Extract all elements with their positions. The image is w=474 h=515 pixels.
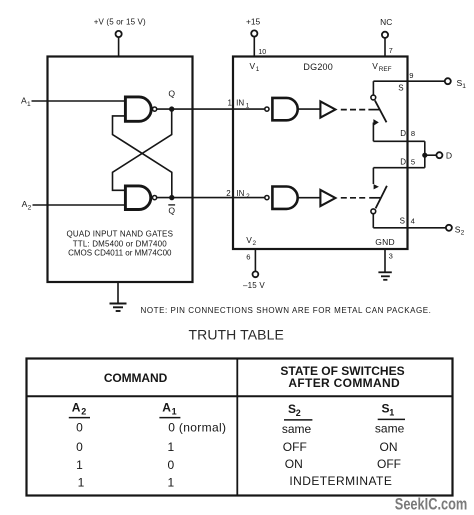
- svg-text:3: 3: [389, 252, 393, 261]
- wire S pin9 to S1: [373, 80, 444, 82]
- wire pin7 stem: [384, 38, 386, 56]
- svg-text:+V (5 or 15 V): +V (5 or 15 V): [94, 17, 146, 26]
- NAND gates box U1: [48, 57, 193, 283]
- svg-text:6: 6: [246, 252, 250, 261]
- svg-text:–15 V: –15 V: [243, 281, 265, 290]
- svg-text:AFTER COMMAND: AFTER COMMAND: [288, 376, 400, 390]
- svg-text:CMOS CD4011 or MM74C00: CMOS CD4011 or MM74C00: [68, 249, 172, 258]
- bubble G1: [153, 107, 157, 111]
- junction D: [422, 153, 427, 158]
- svg-text:0: 0: [167, 458, 174, 472]
- column head S2: [288, 402, 301, 418]
- svg-text:0: 0: [76, 420, 83, 434]
- svg-text:2: 2: [253, 240, 257, 247]
- wire S pin4 to S2: [373, 227, 446, 229]
- table row 3: [76, 457, 401, 472]
- column head A2: [72, 400, 86, 416]
- truth table frame: [27, 359, 453, 496]
- svg-text:8: 8: [411, 129, 415, 138]
- ground (pin3): [378, 249, 392, 280]
- svg-text:same: same: [282, 422, 312, 436]
- bubble gate B input: [265, 196, 269, 200]
- and gate A: [272, 98, 297, 120]
- buffer A: [320, 101, 335, 117]
- table header divider: [27, 395, 453, 397]
- column head A1: [162, 400, 176, 416]
- svg-text:SeekIC.com: SeekIC.com: [395, 494, 468, 513]
- wire D stub: [425, 154, 437, 156]
- svg-text:NOTE: PIN CONNECTIONS SHOWN AR: NOTE: PIN CONNECTIONS SHOWN ARE FOR META…: [141, 306, 432, 315]
- table row 1: [76, 420, 404, 436]
- ground (left box): [110, 283, 127, 312]
- svg-text:ON: ON: [380, 440, 398, 454]
- svg-text:0 (normal): 0 (normal): [168, 421, 226, 435]
- analog switch box U2 DG200: [233, 57, 408, 250]
- pin 1 IN1 label: [228, 99, 250, 110]
- svg-text:5: 5: [411, 157, 415, 166]
- svg-text:1: 1: [167, 475, 174, 489]
- wire dashed control B: [341, 197, 365, 199]
- wire Qbar output: [157, 197, 265, 199]
- terminal +15: [246, 17, 266, 57]
- switch SW1: [371, 81, 387, 141]
- svg-text:1: 1: [27, 101, 31, 108]
- bubble G2: [153, 196, 157, 200]
- terminal NC: [380, 17, 393, 56]
- wire D net vertical: [424, 141, 426, 167]
- wire D pin8: [373, 140, 424, 142]
- svg-text:IN: IN: [236, 99, 244, 108]
- svg-text:1: 1: [389, 408, 394, 418]
- svg-text:2: 2: [28, 204, 32, 211]
- terminal +V: [94, 17, 146, 56]
- svg-text:same: same: [375, 421, 405, 435]
- svg-text:A: A: [162, 400, 171, 414]
- svg-text:1: 1: [246, 103, 250, 110]
- pin V1 label: [250, 61, 260, 73]
- svg-text:1: 1: [167, 440, 174, 454]
- pin V2 label: [246, 235, 256, 247]
- svg-text:2: 2: [226, 189, 231, 198]
- svg-text:V: V: [250, 61, 256, 71]
- svg-text:1: 1: [256, 66, 260, 73]
- buffer B: [320, 190, 335, 206]
- and gate B: [272, 187, 297, 209]
- svg-text:D: D: [446, 151, 452, 161]
- junction Q: [169, 106, 174, 111]
- node Qbar label: [168, 205, 175, 216]
- svg-text:NC: NC: [380, 17, 392, 27]
- node A1: [21, 96, 31, 108]
- wire feedback Q to G2 input: [113, 109, 172, 190]
- svg-text:OFF: OFF: [377, 457, 401, 471]
- svg-text:9: 9: [409, 71, 413, 80]
- terminal S1: [445, 78, 467, 90]
- svg-text:QUAD INPUT NAND GATES: QUAD INPUT NAND GATES: [66, 230, 173, 239]
- node A2: [22, 199, 32, 211]
- svg-text:2: 2: [461, 230, 465, 237]
- svg-text:V: V: [372, 61, 378, 71]
- svg-text:0: 0: [76, 440, 83, 454]
- svg-text:1: 1: [78, 475, 85, 489]
- svg-text:1: 1: [462, 83, 466, 90]
- wire gateA to buffer: [298, 108, 321, 110]
- svg-text:COMMAND: COMMAND: [104, 371, 168, 385]
- svg-text:2: 2: [81, 406, 86, 416]
- svg-text:V: V: [246, 235, 252, 245]
- wire A2 input: [33, 204, 126, 206]
- svg-text:D: D: [400, 157, 406, 166]
- terminal -15V pin6: [243, 249, 265, 290]
- svg-text:IN: IN: [236, 189, 244, 198]
- svg-text:1: 1: [76, 458, 83, 472]
- wire feedback Qbar to G1 input: [113, 116, 172, 198]
- table row 4: [78, 474, 393, 489]
- value label QUAD INPUT NAND GATES: [66, 230, 173, 258]
- svg-text:S: S: [398, 84, 403, 93]
- svg-text:ON: ON: [285, 457, 303, 471]
- svg-text:4: 4: [411, 216, 415, 225]
- wire dashed control A: [341, 109, 365, 111]
- svg-text:OFF: OFF: [283, 440, 307, 454]
- svg-text:+15: +15: [246, 17, 261, 27]
- svg-text:Q: Q: [168, 206, 175, 216]
- svg-text:INDETERMINATE: INDETERMINATE: [289, 474, 392, 488]
- svg-text:2: 2: [296, 408, 301, 418]
- pin 2 IN2 label: [226, 189, 250, 200]
- wire gateB to buffer: [298, 197, 321, 199]
- svg-text:D: D: [400, 129, 406, 138]
- table row 2: [76, 440, 397, 454]
- junction Qbar: [169, 195, 174, 200]
- svg-text:S: S: [400, 216, 405, 225]
- wire D pin5: [373, 167, 424, 169]
- switch SW2: [371, 168, 387, 228]
- wire pin10 stem: [253, 37, 255, 57]
- nand gate G2: [125, 186, 150, 210]
- terminal D: [436, 151, 452, 161]
- bubble gate A input: [265, 107, 269, 111]
- svg-text:A: A: [72, 400, 81, 414]
- column head S1: [382, 401, 395, 417]
- svg-text:DG200: DG200: [303, 62, 333, 72]
- wire +V stem: [118, 37, 120, 56]
- svg-text:Q: Q: [168, 88, 175, 98]
- svg-text:TRUTH TABLE: TRUTH TABLE: [188, 327, 283, 343]
- table column divider: [236, 359, 238, 496]
- svg-text:REF: REF: [379, 66, 392, 73]
- svg-text:1: 1: [172, 406, 177, 416]
- terminal S2: [446, 224, 465, 236]
- svg-text:1: 1: [228, 99, 233, 108]
- svg-text:2: 2: [246, 193, 250, 200]
- wire Q output: [157, 108, 265, 110]
- svg-text:7: 7: [389, 46, 393, 55]
- wire A1 input: [32, 100, 126, 102]
- svg-text:10: 10: [258, 49, 266, 56]
- svg-text:GND: GND: [375, 237, 395, 247]
- svg-text:TTL: DM5400 or DM7400: TTL: DM5400 or DM7400: [73, 239, 167, 248]
- pin VREF label: [372, 61, 391, 73]
- nand gate G1: [125, 97, 151, 121]
